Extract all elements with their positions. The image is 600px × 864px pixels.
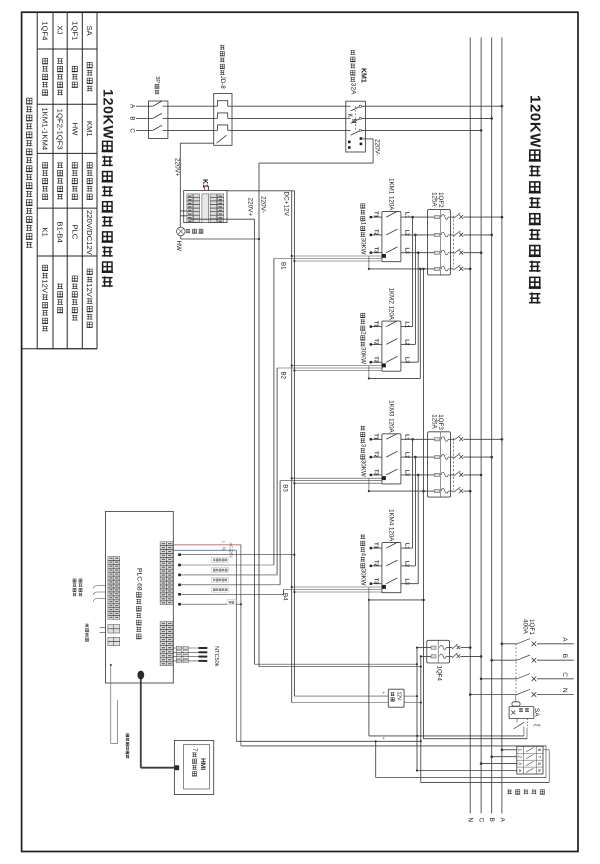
contactor 1KM4 box: [382, 542, 401, 592]
svg-text:12V: 12V: [41, 279, 50, 294]
junction 1QF2 pole 1 bus: [501, 216, 504, 219]
PLC controller box: [106, 511, 174, 683]
junction heater common bank 4: [368, 599, 370, 601]
junction 1QF2 pole4 busN: [469, 268, 472, 271]
svg-text:125A: 125A: [430, 192, 437, 207]
wire 1QF3 pole 3 to bus: [464, 474, 482, 476]
svg-text:T2: T2: [373, 560, 379, 566]
emergency stop SA body: [509, 707, 534, 719]
breaker QS 3P air switch: [149, 101, 168, 139]
junction 220V- lamp: [258, 238, 260, 240]
wire 1QF1 pole C from bus: [481, 678, 517, 680]
terminal T3 of 1KM2: [370, 356, 382, 363]
wire L2 stub bank 2: [401, 343, 416, 345]
label K1: [201, 179, 208, 188]
phase label B: [128, 116, 135, 120]
PLC aux terminal blocks: [108, 625, 120, 646]
breaker 1QF1 pole B contact: [517, 655, 536, 663]
label HMI: [199, 758, 206, 770]
wire XJ return riser: [375, 740, 377, 777]
svg-text:B: B: [488, 818, 495, 822]
wire 1QF1 pole B to supply: [537, 659, 574, 661]
wire heater common bank 2: [369, 366, 420, 379]
drawing title (top of landscape): [526, 95, 543, 304]
wire 220V+ into K1 row1: [180, 210, 187, 212]
wire 1QF4 left stub 1: [416, 647, 427, 649]
label 1QF4: [436, 666, 443, 682]
wire L2 riser banks 3-4: [414, 457, 416, 566]
wire 1QF2 pole 3 to bank: [401, 252, 428, 254]
wire lamp to 220V- rail: [181, 236, 259, 239]
junction DC- coil 2: [293, 369, 295, 371]
drawing title (bottom of landscape): [99, 89, 115, 287]
wire DC- to 1KM1 coil: [294, 260, 382, 262]
label 220V- at KM1: [373, 139, 380, 156]
indicator lamp HW: [177, 227, 186, 236]
breaker 1QF3 pole 3 contact: [454, 471, 464, 477]
wire heater common group 1 stub: [368, 256, 370, 269]
svg-text:A: A: [498, 818, 505, 823]
wire 1QF3 pole 4 left: [369, 490, 428, 492]
svg-text:1QF4: 1QF4: [436, 666, 443, 682]
wire B4 control riser: [284, 590, 382, 595]
junction 1QF2 pole 3 bus: [480, 251, 483, 254]
SA actuator dashes: [527, 719, 529, 729]
node B1 label: [280, 262, 287, 270]
wire L1 stub bank 2: [401, 326, 413, 328]
wire heater common group 3 stub: [368, 479, 370, 492]
junction DC- coil 3: [293, 482, 295, 484]
svg-text:PLC: PLC: [70, 224, 79, 239]
supply phase label C: [561, 672, 568, 677]
phase protector XJ box: [517, 746, 543, 774]
svg-text:30KW: 30KW: [359, 460, 366, 477]
svg-text:JD-8: JD-8: [219, 76, 226, 90]
label water pump protector JD-8: [219, 45, 226, 89]
label 220V+ at JD-8: [174, 158, 181, 177]
wire common riser banks 1-2: [419, 269, 421, 379]
svg-text:T2: T2: [373, 451, 379, 457]
junction DC+ coil 2: [291, 364, 293, 366]
junction DC- coil 1: [293, 260, 295, 262]
wire DC+ to 1KM4 coil: [292, 586, 382, 588]
svg-text:T3: T3: [373, 356, 379, 362]
junction DC- coil 4: [293, 591, 295, 593]
label PLC pigtails 1: [73, 579, 83, 596]
label PLC pigtails 2: [85, 624, 89, 642]
svg-text:5: 5: [537, 769, 542, 772]
svg-text:7: 7: [191, 748, 198, 752]
wire 1QF2 pole 4 to bus N: [464, 268, 471, 270]
wire 1QF1 pole B from bus: [492, 659, 517, 661]
wire DC- rail to PSU: [294, 695, 388, 697]
junction 1QF3 pole4 busN: [469, 490, 472, 493]
junction L1 group 3: [411, 438, 414, 441]
label 1QF3: [430, 414, 444, 430]
wire K1 input stub: [207, 186, 209, 191]
wire 1QF4 left stub 2: [420, 655, 427, 657]
wire 1QF2 pole 2 to bus: [464, 234, 492, 236]
svg-text:1QF3: 1QF3: [437, 414, 444, 430]
label AC N: [221, 547, 226, 550]
label 1KM1 120A: [388, 178, 395, 211]
svg-text:1: 1: [359, 222, 366, 226]
breaker 1QF3 pole 1 contact: [454, 435, 464, 441]
label heater group 2 30KW: [359, 313, 366, 364]
terminal L3 of 1KM3: [403, 470, 409, 476]
contactor 1KM2 box: [382, 321, 401, 371]
wire bank4 common down-drop: [368, 600, 370, 736]
wire L2 stub bank 4: [401, 565, 416, 567]
wire K1 bottom to 220V+ rail: [190, 218, 254, 220]
relay K1 terminal board: [184, 191, 227, 223]
svg-text:120KW: 120KW: [526, 95, 543, 148]
NTC sensor connectors: [173, 646, 207, 662]
terminal T1 of 1KM1: [370, 211, 382, 218]
label AC220V: [229, 543, 234, 559]
wire PLC out 1 to DC- rail: [179, 554, 296, 556]
label 3P air switch: [154, 76, 160, 94]
wire 1QF3 pole 2 to bus: [464, 456, 492, 458]
wire DC- to 1KM2 coil: [294, 370, 382, 372]
svg-text:3: 3: [518, 762, 523, 765]
junction heater common 1: [368, 268, 370, 270]
bus B vertical: [491, 38, 493, 814]
terminal L3 of 1KM2: [403, 357, 409, 363]
wire XJ return lower: [421, 781, 549, 783]
svg-text:SA: SA: [85, 25, 94, 36]
svg-text:AC220V: AC220V: [229, 543, 234, 559]
svg-text:C: C: [128, 128, 135, 133]
wire L3 stub bank 2: [401, 361, 418, 363]
label XJ 相序保护器: [507, 789, 545, 794]
wire right control vertical 1: [416, 648, 418, 771]
terminal L1 of 1KM4: [403, 543, 409, 549]
svg-text:T1: T1: [373, 434, 379, 440]
terminal T2 of 1KM1: [370, 229, 382, 236]
junction 1QF3 pole 1 bus: [501, 438, 504, 441]
svg-text:C: C: [478, 818, 485, 823]
svg-text:XJ: XJ: [56, 25, 65, 34]
junction 1QF4 bus: [480, 655, 483, 658]
svg-text:220V/DC12V: 220V/DC12V: [85, 210, 94, 256]
phase label A: [128, 104, 135, 109]
node B4 label: [282, 593, 289, 601]
wire XJ right loop inner: [545, 746, 547, 778]
svg-text:T3: T3: [373, 578, 379, 584]
label 1KM3 120A: [388, 400, 395, 433]
label KM1: [360, 68, 367, 83]
svg-text:T3: T3: [373, 247, 379, 253]
wire 1QF1 pole C to supply: [537, 678, 574, 680]
terminal T2 of 1KM3: [370, 451, 382, 458]
terminal T1 of 1KM4: [370, 542, 382, 549]
wire 1QF1 pole A from bus: [502, 643, 517, 645]
wire 220V+ rail elbow: [254, 663, 418, 665]
svg-text:220V-: 220V-: [373, 139, 380, 156]
breaker 1QF3 box: [428, 432, 454, 497]
wire A into 3P switch: [136, 105, 150, 107]
wire XJ row2 from bus B: [490, 755, 516, 758]
wire B JD-8 to KM1: [232, 117, 346, 119]
svg-text:3P: 3P: [154, 76, 160, 83]
wire A KM1 to bus A: [365, 105, 502, 107]
wire 1QF3 pole 3 to bank: [401, 474, 428, 476]
wire XJ row3 from bus C: [480, 762, 517, 765]
terminal T2 of 1KM4: [370, 560, 382, 567]
wire AC L red: [173, 544, 241, 546]
svg-text:120KW: 120KW: [99, 89, 115, 139]
svg-text:T2: T2: [373, 339, 379, 345]
breaker 1QF2 pole 3 contact: [454, 249, 464, 255]
svg-text:8: 8: [537, 749, 542, 752]
svg-text:4: 4: [518, 769, 523, 772]
svg-text:T1: T1: [373, 542, 379, 548]
wire B2 control riser: [277, 368, 382, 575]
wire PLC out B2: [179, 574, 277, 576]
wire JD-8 to 220V+ drop: [180, 142, 213, 144]
svg-text:HMI: HMI: [199, 758, 206, 770]
bus end label N: [467, 818, 474, 823]
junction neutral drop bank4: [422, 599, 425, 602]
wire L1 riser banks 1-2: [412, 217, 414, 327]
label DC+12V: [282, 192, 289, 217]
svg-text:+: +: [381, 737, 386, 740]
wire C 3P switch to JD-8: [168, 129, 214, 131]
svg-text:220V+: 220V+: [174, 158, 181, 177]
svg-text:NTC50k: NTC50k: [213, 646, 219, 667]
junction 1QF1 C: [480, 678, 483, 681]
wire 220V+ vertical rail: [253, 219, 255, 664]
wire 1QF2 pole 1 to bank: [401, 216, 428, 218]
wire L2 riser banks 1-2: [414, 235, 416, 345]
svg-text:N: N: [467, 818, 474, 823]
wire AC N blue: [173, 549, 236, 551]
breaker 1QF2 trip link: [453, 216, 455, 268]
svg-text:B3: B3: [282, 484, 289, 492]
SA actuator stem: [515, 695, 517, 702]
phase label C: [128, 128, 135, 133]
svg-text:B2: B2: [280, 372, 287, 380]
terminal T3 of 1KM3: [370, 469, 382, 476]
svg-text:C: C: [561, 672, 568, 677]
label 1QF2: [430, 192, 444, 208]
junction bus A top: [501, 105, 504, 108]
terminal L2 of 1KM3: [403, 452, 409, 458]
wire 1QF1 pole N from bus: [470, 694, 517, 696]
wire 220V+ into K1 row2: [180, 215, 187, 217]
label heater group 3 30KW: [359, 426, 366, 477]
svg-text:HW: HW: [175, 241, 182, 251]
svg-text:KM1: KM1: [85, 121, 94, 137]
wire A 3P switch to JD-8: [168, 105, 214, 107]
svg-text:1KM2 120A: 1KM2 120A: [388, 288, 395, 321]
supply phase label B: [561, 654, 568, 658]
wire SA terminal right: [526, 728, 528, 739]
terminal T3 of 1KM4: [370, 578, 382, 585]
wire XJ row4 from control: [416, 769, 517, 771]
label NTC50k: [213, 646, 219, 667]
PLC output labels: [212, 557, 228, 592]
PLC stray terminal dot: [110, 664, 112, 666]
terminal L1 of 1KM3: [403, 434, 409, 440]
svg-text:1QF1: 1QF1: [528, 619, 535, 635]
wire DC+ to 1KM2 coil: [292, 365, 382, 367]
wire XJ row1 from bus A: [501, 749, 517, 752]
terminal L3 of 1KM1: [403, 248, 409, 254]
contactor 1KM1 box: [382, 211, 401, 261]
wire PLC out B3: [179, 584, 280, 586]
terminal T3 of 1KM1: [370, 247, 382, 254]
svg-text:HW: HW: [70, 123, 79, 137]
junction heater common 3: [368, 490, 370, 492]
svg-text:A: A: [561, 637, 568, 642]
wire 1QF2 pole 1 to bus: [464, 216, 502, 218]
bus end label B: [488, 818, 495, 822]
breaker 1QF1 pole A contact: [517, 639, 536, 647]
svg-text:1KM4 120A: 1KM4 120A: [388, 509, 395, 542]
svg-text:4: 4: [359, 553, 366, 557]
breaker 1QF3 pole 4 contact: [454, 487, 464, 493]
junction 1QF3 pole 3 bus: [480, 474, 483, 477]
wire L3 riser banks 1-2: [417, 253, 419, 363]
wire neutral long drop: [423, 269, 425, 739]
wire XJ right loop outer: [543, 750, 549, 783]
terminal T1 of 1KM2: [370, 321, 382, 328]
svg-text:K1: K1: [41, 227, 50, 236]
wire B KM1 to bus B: [365, 117, 491, 119]
SA contact: [514, 719, 540, 729]
svg-text:400A: 400A: [521, 619, 528, 635]
label 1KM4 120A: [388, 509, 395, 542]
terminal L1 of 1KM1: [403, 212, 409, 218]
label heater group 4 30KW: [359, 534, 366, 585]
wire K1 to DC12V rails: [227, 190, 294, 192]
svg-text:PLC 68: PLC 68: [135, 568, 142, 591]
label AC L: [221, 541, 226, 544]
wire 1QF1 pole A to supply: [537, 643, 574, 645]
wire KM1 aux to 220V- drop: [259, 139, 373, 163]
wire 220V+ drop to K1/lamp: [179, 143, 181, 227]
wire A JD-8 to KM1: [232, 105, 346, 107]
junction DC+ coil 3: [291, 477, 293, 479]
wire L1 stub bank 4: [401, 547, 413, 549]
svg-text:1QF2: 1QF2: [437, 192, 444, 208]
svg-text:K: K: [346, 113, 352, 117]
breaker 1QF1 trip link: [515, 644, 517, 695]
wire 1QF2 pole 2 to bank: [401, 234, 428, 236]
water pump protector JD-8 box: [214, 93, 232, 145]
label 12V PSU: [391, 692, 402, 702]
wire B3 control riser: [280, 481, 382, 585]
node B3 label: [282, 484, 289, 492]
wire AC L bottom run: [241, 745, 546, 747]
SA mushroom cap: [512, 702, 520, 706]
svg-text:B: B: [561, 654, 568, 658]
svg-text:DC+12V: DC+12V: [282, 192, 289, 217]
svg-text:2: 2: [359, 331, 366, 335]
svg-text:T3: T3: [373, 469, 379, 475]
bus C vertical: [480, 38, 482, 814]
wire PLC out B1: [179, 564, 274, 566]
svg-text:1KM1-1KM4: 1KM1-1KM4: [41, 107, 50, 150]
wire 1QF3 pole 2 to bank: [401, 456, 428, 458]
wire 1QF4 to bus: [461, 647, 471, 649]
PLC right lower terminal strip: [160, 622, 173, 666]
breaker 1QF3 trip link: [453, 438, 455, 490]
wire C into 3P switch: [136, 129, 150, 131]
wire heater common bank 4: [369, 587, 424, 600]
HMI outer box: [174, 741, 213, 795]
HMI inner box: [184, 744, 210, 789]
svg-text:1KM1 120A: 1KM1 120A: [388, 178, 395, 211]
wire DC12V+ vertical rail: [291, 191, 293, 703]
label 220V- rail: [260, 196, 267, 213]
label 220V+ rail: [247, 198, 254, 217]
wire SA terminal left: [369, 727, 524, 738]
svg-text:T1: T1: [373, 211, 379, 217]
legend table cell texts: [41, 21, 95, 331]
breaker 1QF1 pole N contact: [517, 689, 536, 697]
wire right control vertical 2: [420, 656, 422, 782]
label heater group 1 30KW: [359, 204, 366, 255]
terminal L2 of 1KM2: [403, 339, 409, 345]
PSU polarity mark: [381, 692, 386, 695]
wire 1QF2 pole 4 left: [369, 268, 428, 270]
svg-text:12V: 12V: [85, 283, 94, 298]
breaker 1QF3 pole 2 contact: [454, 453, 464, 459]
svg-text:N: N: [561, 688, 568, 693]
wire 220V- rail elbow: [259, 666, 422, 668]
svg-text:6: 6: [537, 762, 542, 765]
label HMI size: [191, 748, 198, 776]
svg-text:7: 7: [537, 755, 542, 758]
svg-text:1QF1: 1QF1: [70, 21, 79, 40]
svg-text:B1: B1: [280, 262, 287, 270]
svg-text:N: N: [221, 547, 226, 550]
wire L3 stub bank 4: [401, 583, 418, 585]
contactor KM1 box: [346, 101, 366, 152]
PLC output label 6: [227, 600, 236, 605]
node B2 label: [280, 372, 287, 380]
supply phase label A: [561, 637, 568, 642]
wire 1QF3 pole 4 to bus N: [464, 490, 471, 492]
svg-text:B: B: [128, 116, 135, 120]
junction L2 group 1: [414, 234, 417, 237]
PLC right upper terminal strip: [160, 542, 173, 605]
contactor 1KM3 box: [382, 434, 401, 484]
svg-text:T1: T1: [373, 321, 379, 327]
wire PLC out 6 to AC L drop: [179, 603, 242, 605]
wire DC+ rail to PSU: [292, 702, 389, 704]
supply phase label N: [561, 688, 568, 693]
breaker 1QF2 pole 4 contact: [454, 265, 464, 271]
HMI cable connector: [137, 671, 179, 771]
svg-text:SA: SA: [533, 708, 540, 717]
junction 1QF1 B: [490, 659, 493, 662]
bus A vertical: [501, 38, 503, 814]
svg-text:1QF4: 1QF4: [41, 21, 50, 41]
wire 12V PSU out1: [404, 695, 418, 697]
bus end label A: [498, 818, 505, 823]
junction 1QF1 A: [501, 643, 504, 646]
svg-text:2: 2: [518, 755, 523, 758]
wire 1QF4 to bus: [461, 655, 482, 657]
label KM1 rating: [349, 50, 356, 95]
bus end label C: [478, 818, 485, 823]
wire XJ return upper: [376, 777, 546, 779]
breaker 1QF2 box: [428, 210, 454, 275]
